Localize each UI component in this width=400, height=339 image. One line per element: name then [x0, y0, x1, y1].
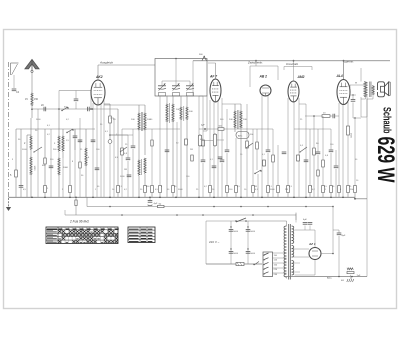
aerial coupling cap C1	[12, 88, 17, 90]
sub-bus junction dots	[109, 206, 111, 208]
cap C6a	[74, 98, 79, 100]
IFT1 coils lower	[138, 160, 140, 175]
cap C5	[19, 185, 24, 187]
filter cap 8uF	[338, 230, 340, 233]
wire x199	[198, 96, 200, 197]
switch mains 2	[254, 262, 259, 266]
transformer core	[288, 224, 290, 280]
wire x75	[74, 129, 76, 197]
resistor R31	[330, 186, 333, 193]
svg-text:Sperrkr.: Sperrkr.	[344, 60, 354, 64]
wire x122	[121, 129, 123, 197]
cap C17	[329, 149, 334, 151]
IFT2 coils	[234, 111, 236, 128]
svg-text:Schaub: Schaub	[381, 107, 393, 134]
wire x310	[309, 129, 311, 186]
node top bus ab2	[255, 60, 257, 62]
wire x27 down	[26, 135, 28, 197]
resistor R18	[252, 186, 255, 193]
rectifier cathode up	[321, 253, 333, 255]
svg-text:4Ω: 4Ω	[341, 280, 344, 282]
small res R10	[151, 140, 153, 146]
resistor R13	[159, 186, 162, 193]
wire link AK2-IFT1	[104, 104, 145, 106]
rectifier wires anode	[295, 229, 316, 231]
bar cap x203	[202, 140, 205, 146]
svg-text:2M: 2M	[190, 149, 193, 151]
IFT2 wires top	[234, 104, 236, 111]
wire AVC down	[235, 138, 237, 186]
resistor R20	[267, 186, 270, 193]
svg-text:50k: 50k	[250, 134, 253, 136]
speaker field coil	[364, 82, 367, 97]
wire L4 down	[58, 152, 60, 158]
gang cap 3	[186, 85, 194, 87]
IFT2 wires down	[234, 128, 236, 132]
pointer symbol above gang	[202, 57, 206, 61]
cap C5c	[78, 139, 83, 141]
tube AZ1	[309, 248, 321, 260]
pill cap B	[213, 134, 216, 146]
coil L5	[58, 158, 60, 175]
svg-text:2 Fua 96 kHz: 2 Fua 96 kHz	[69, 219, 89, 223]
cap C13	[225, 149, 230, 151]
wire x45 down	[44, 129, 46, 186]
node gang top	[175, 58, 177, 60]
svg-text:50k: 50k	[350, 189, 353, 191]
node grid AK2	[90, 108, 92, 110]
resistor R11	[151, 186, 154, 193]
wire R29 down	[347, 135, 349, 186]
wire x70	[69, 131, 71, 186]
AVC box	[236, 132, 249, 139]
frame aerial symbol	[10, 63, 12, 75]
osc coil A wires	[166, 122, 168, 197]
speaker magnet	[378, 82, 385, 97]
AF7 pins	[209, 100, 211, 186]
hline y129 c	[294, 128, 318, 130]
ground symbol main	[8, 198, 10, 207]
resistor R24 h	[322, 115, 330, 118]
svg-text:7μF: 7μF	[357, 275, 361, 277]
resistor R29 1500	[347, 126, 350, 135]
resistor R27	[322, 186, 325, 193]
wire y118 right	[353, 117, 361, 119]
mains vertical 2	[247, 221, 249, 264]
speaker core	[369, 82, 371, 98]
tube AK2	[91, 80, 105, 105]
coil L4 pair	[58, 109, 60, 136]
wire x355 down	[354, 118, 356, 186]
trafo primary wires	[286, 221, 288, 226]
switch blades texture	[246, 143, 253, 148]
osc coil pair A	[166, 96, 168, 104]
selector to primary links	[273, 252, 287, 254]
wire speaker feed down	[366, 99, 368, 117]
resistor R25	[309, 186, 312, 193]
gang trimmer 1	[159, 93, 166, 96]
svg-text:Akku: Akku	[327, 277, 333, 280]
table voltages grid	[46, 227, 118, 244]
wire x253	[252, 129, 254, 186]
wire x59 down	[58, 91, 60, 110]
resistor R30	[347, 186, 350, 193]
node antenna junction	[31, 108, 33, 110]
switch S2	[255, 170, 261, 174]
cap C15	[332, 114, 334, 119]
wire x80	[79, 118, 81, 197]
svg-text:AVC: AVC	[238, 135, 243, 138]
wire AB2 routing box	[249, 66, 251, 87]
wire x63 down	[62, 158, 64, 197]
res R26	[322, 160, 325, 167]
coil L3 1000	[30, 157, 32, 175]
speaker down wires	[360, 97, 362, 117]
cap C14	[266, 149, 271, 151]
transformer sec 1	[292, 226, 294, 243]
wire x114	[113, 118, 115, 197]
cap 4uF electrolytic	[149, 197, 151, 200]
wire y129 bus	[16, 128, 95, 130]
wire R2 to gnd bus	[15, 178, 17, 198]
bus junction dots	[31, 196, 33, 198]
hline y135 mid	[110, 134, 133, 136]
resistor R16	[235, 186, 238, 193]
speaker voice coil	[372, 86, 374, 95]
gang inner wires	[161, 81, 163, 86]
svg-text:4μF: 4μF	[303, 219, 307, 221]
transformer sec 3	[292, 261, 294, 275]
band switch S1a	[62, 107, 68, 111]
resistor R19	[256, 142, 259, 149]
svg-text:5Ω: 5Ω	[159, 204, 162, 206]
wire grid line y109	[32, 108, 95, 110]
AL4 pins	[338, 103, 340, 186]
svg-text:1M: 1M	[124, 169, 127, 171]
right vertical x367	[366, 97, 368, 199]
svg-text:Umschalt.: Umschalt.	[286, 62, 299, 66]
svg-text:220 V ~: 220 V ~	[209, 240, 220, 244]
cap 20pF on grid line	[43, 107, 45, 112]
AB2 pins	[261, 95, 263, 197]
resistor R7	[117, 186, 120, 193]
node y127 dot	[204, 128, 206, 130]
svg-text:Zwischenkr.: Zwischenkr.	[247, 61, 263, 65]
speaker cone	[385, 82, 389, 96]
IFT1 coils upper	[138, 113, 140, 130]
hline y129 mid	[122, 128, 180, 130]
svg-text:Ausgleich: Ausgleich	[99, 61, 113, 65]
cap C12	[220, 159, 225, 161]
wire anode to speaker	[350, 84, 365, 86]
node top bus left	[192, 61, 194, 96]
resistor R22	[277, 186, 280, 193]
wire x296 down	[295, 213, 297, 221]
resistor R5 50k	[109, 116, 112, 123]
gang cap 1	[158, 85, 166, 87]
cluster mid right	[313, 148, 316, 155]
wire x16 down	[15, 129, 17, 170]
svg-text:1000: 1000	[33, 166, 35, 172]
right vertical x367 lower	[366, 199, 368, 277]
svg-text:4μF: 4μF	[154, 203, 158, 205]
AM2 pins	[287, 98, 289, 186]
coil L6	[85, 129, 87, 148]
resistor R14	[209, 186, 212, 193]
antenna coil L1	[31, 93, 33, 106]
wire y117 join	[361, 116, 367, 118]
cap C19 anode	[351, 99, 356, 101]
wire x203 down	[202, 96, 204, 160]
resistor R23	[287, 186, 290, 193]
top supply bus	[193, 60, 390, 62]
svg-text:AK2: AK2	[95, 75, 103, 79]
res 5ohm h	[158, 205, 165, 207]
wire x38	[37, 109, 39, 197]
wire x51	[50, 129, 52, 197]
grid wire AK2 top	[97, 65, 99, 80]
gang trimmer 2	[173, 93, 180, 96]
bar cap 50pF	[185, 139, 188, 145]
wire AL4 top	[343, 61, 345, 80]
rectifier heater wires	[292, 248, 310, 250]
cap C8	[126, 157, 131, 159]
osc coil pair B	[180, 96, 182, 107]
svg-text:8μF: 8μF	[342, 235, 346, 237]
decoupling stub resistor	[75, 197, 77, 200]
voltage selector box	[263, 252, 273, 277]
tube AM2	[288, 81, 299, 102]
chassis dash-dot line left	[8, 62, 10, 197]
rectifier wires anode2	[295, 274, 316, 276]
wire L1 to junction	[31, 106, 33, 118]
switch arrow band	[34, 147, 42, 152]
svg-text:AM2: AM2	[297, 75, 305, 79]
resistor R17	[246, 141, 249, 148]
main ground bus	[9, 196, 356, 198]
wire x333 down	[332, 206, 334, 254]
resistor R8	[121, 148, 124, 155]
wire AK2 anode right	[104, 103, 110, 105]
resistor R4	[69, 186, 72, 193]
extra texture parts	[44, 158, 47, 164]
selector taps	[264, 253, 269, 255]
svg-text:1500: 1500	[350, 133, 352, 139]
fuse	[236, 262, 244, 265]
wire L3 to bus	[30, 175, 32, 197]
mains vertical 1	[230, 221, 232, 264]
pill cap A	[198, 135, 201, 146]
AK2 pin wires	[92, 103, 94, 197]
ground symbol bottom	[350, 277, 352, 279]
IFT1 lower wires	[138, 176, 140, 197]
svg-text:AL4: AL4	[336, 74, 343, 78]
svg-text:AZ 1: AZ 1	[308, 242, 316, 246]
wire x306	[305, 104, 307, 197]
resistor R21	[272, 155, 275, 162]
tube AB2	[260, 85, 271, 96]
bottom line dots	[338, 276, 340, 278]
hline y129 b	[199, 128, 257, 130]
cap C7	[91, 139, 96, 141]
svg-text:2M: 2M	[285, 189, 288, 191]
resistor R9	[144, 186, 147, 193]
resistor R15	[226, 186, 229, 193]
wire x160 down	[159, 96, 161, 186]
resistor R28	[338, 186, 341, 193]
svg-text:1000: 1000	[63, 167, 69, 169]
node j1	[109, 134, 111, 136]
cap C9	[131, 145, 136, 147]
IFT1 wires	[138, 105, 140, 113]
tube AF7	[210, 79, 221, 102]
cap C16	[316, 151, 321, 153]
bus B+ y206	[87, 206, 333, 208]
transformer sec 2	[292, 246, 294, 258]
ground network bottom	[347, 272, 354, 274]
cap C11	[201, 159, 206, 161]
svg-text:2M: 2M	[254, 186, 257, 188]
bus B y215	[65, 214, 296, 216]
gang cap 2	[172, 85, 180, 87]
switch S1b	[67, 129, 73, 133]
resistor R3	[44, 186, 47, 193]
node AK2 grid	[92, 108, 94, 110]
mains line y264	[206, 263, 262, 265]
wire L2 down	[30, 150, 32, 157]
svg-text:150: 150	[34, 98, 39, 101]
table tube data	[128, 227, 155, 243]
wire s2 down	[257, 174, 259, 197]
mains loop top	[206, 220, 248, 222]
mains cap 2	[246, 229, 251, 231]
mains switch	[236, 218, 246, 222]
wire x118	[117, 109, 119, 186]
svg-text:AF 7: AF 7	[209, 75, 217, 79]
wire x177	[176, 122, 178, 197]
coil L2	[30, 118, 32, 136]
wire x207 down	[206, 96, 208, 131]
svg-text:629 W: 629 W	[372, 137, 399, 184]
resistor 500 on y129	[218, 128, 224, 131]
antenna symbol	[25, 60, 39, 69]
trafo top caps	[303, 222, 308, 224]
resistor R32	[354, 186, 357, 193]
resistor R12	[172, 186, 175, 193]
svg-text:AB 2: AB 2	[259, 75, 268, 79]
bottom hv line	[284, 276, 367, 278]
wire antenna down	[31, 72, 33, 93]
gang box outline	[155, 59, 207, 97]
cap C5b	[73, 135, 78, 137]
mains cap 1	[229, 229, 234, 231]
transformer primary	[284, 226, 286, 277]
tube AL4	[337, 80, 350, 105]
bus right segment	[355, 198, 367, 200]
cap C18	[334, 165, 339, 167]
wire grid link y90	[59, 90, 91, 92]
wire am2 top	[293, 61, 295, 81]
wire AF7 grid top	[215, 63, 217, 79]
osc coil B wires	[180, 120, 182, 197]
resistor R2 5k	[15, 170, 18, 177]
gang trimmer 3	[187, 93, 194, 96]
